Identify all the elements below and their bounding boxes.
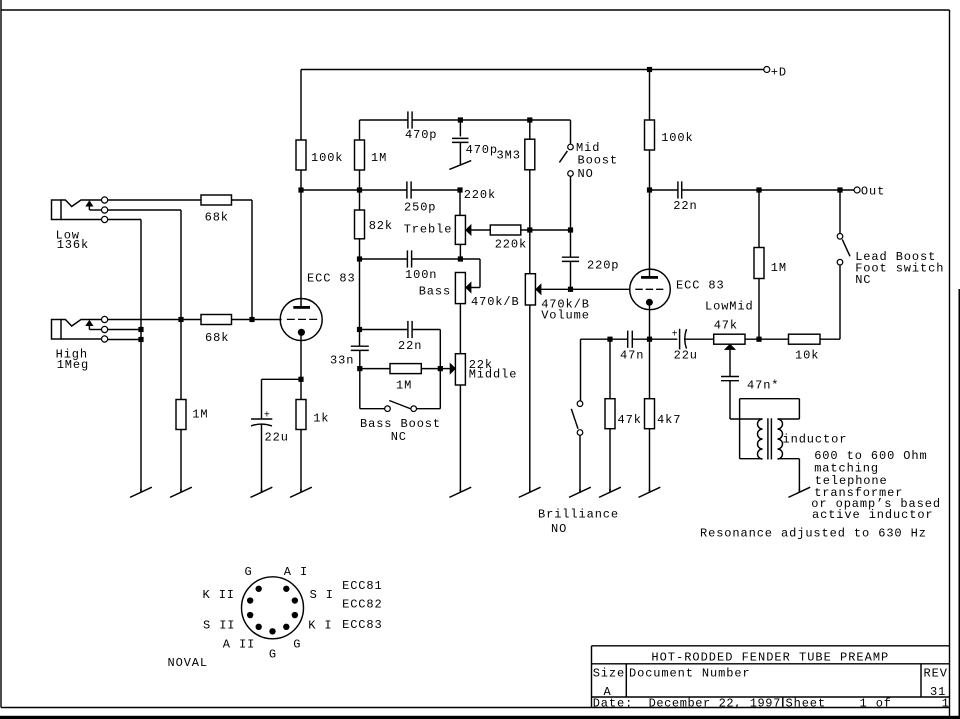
svg-text:1k: 1k [313, 412, 329, 426]
svg-text:100k: 100k [311, 151, 343, 165]
svg-text:K II: K II [203, 588, 235, 602]
svg-text:470p: 470p [405, 128, 437, 142]
svg-text:Volume: Volume [541, 309, 590, 323]
svg-text:22u: 22u [674, 348, 698, 362]
svg-text:22n: 22n [398, 339, 422, 353]
svg-text:ECC82: ECC82 [342, 597, 383, 611]
svg-text:100k: 100k [661, 131, 693, 145]
svg-text:Brilliance: Brilliance [538, 508, 619, 522]
svg-text:47n: 47n [620, 349, 644, 363]
svg-text:December 22, 1997: December 22, 1997 [649, 696, 781, 710]
svg-text:22n: 22n [673, 199, 697, 213]
svg-text:Sheet: Sheet [786, 696, 827, 710]
svg-text:1M: 1M [371, 151, 387, 165]
svg-text:47k: 47k [618, 413, 642, 427]
svg-text:NC: NC [855, 273, 871, 287]
svg-text:250p: 250p [404, 201, 436, 215]
svg-text:+: + [672, 330, 678, 341]
svg-text:47n*: 47n* [747, 379, 779, 393]
svg-text:Bass Boost: Bass Boost [360, 417, 441, 431]
svg-text:A I: A I [284, 565, 308, 579]
svg-text:22u: 22u [265, 431, 289, 445]
svg-text:Size: Size [593, 667, 625, 681]
svg-text:68k: 68k [205, 210, 229, 224]
svg-text:ECC81: ECC81 [342, 579, 383, 593]
svg-text:136k: 136k [57, 238, 89, 252]
svg-text:inductor: inductor [783, 433, 848, 447]
svg-text:Boost: Boost [578, 154, 619, 168]
svg-text:220p: 220p [587, 259, 619, 273]
svg-text:S I: S I [310, 588, 334, 602]
svg-text:NO: NO [578, 167, 594, 181]
svg-text:G: G [293, 637, 301, 651]
svg-text:G: G [269, 648, 277, 662]
svg-text:33n: 33n [330, 354, 354, 368]
svg-text:Document Number: Document Number [629, 667, 751, 681]
svg-text:ECC83: ECC83 [342, 618, 383, 632]
svg-text:4k7: 4k7 [657, 413, 681, 427]
svg-text:Out: Out [861, 185, 885, 199]
svg-text:470k/B: 470k/B [471, 295, 520, 309]
svg-text:1M: 1M [192, 408, 208, 422]
svg-text:470p: 470p [466, 143, 498, 157]
svg-text:+: + [264, 410, 270, 421]
svg-text:1M: 1M [396, 379, 412, 393]
svg-text:1Meg: 1Meg [57, 358, 89, 372]
svg-text:68k: 68k [205, 331, 229, 345]
svg-text:220k: 220k [495, 238, 527, 252]
svg-text:ECC 83: ECC 83 [307, 272, 356, 286]
svg-text:ECC 83: ECC 83 [676, 279, 725, 293]
svg-text:1M: 1M [771, 261, 787, 275]
svg-text:Resonance adjusted to 630 Hz: Resonance adjusted to 630 Hz [700, 527, 927, 541]
svg-text:1 of: 1 of [860, 696, 892, 710]
svg-text:active inductor: active inductor [812, 508, 934, 522]
svg-text:82k: 82k [369, 219, 393, 233]
svg-text:1: 1 [942, 696, 950, 710]
svg-text:S II: S II [203, 618, 235, 632]
svg-text:220k: 220k [464, 188, 496, 202]
svg-text:Treble: Treble [404, 223, 453, 237]
svg-text:LowMid: LowMid [705, 300, 754, 314]
svg-text:3M3: 3M3 [497, 149, 521, 163]
svg-text:10k: 10k [795, 349, 819, 363]
svg-text:Middle: Middle [469, 368, 518, 382]
svg-text:REV: REV [924, 667, 948, 681]
svg-text:+D: +D [771, 65, 787, 79]
svg-text:47k: 47k [714, 319, 738, 333]
svg-text:100n: 100n [405, 268, 437, 282]
svg-text:Date:: Date: [593, 696, 634, 710]
svg-text:NO: NO [551, 522, 567, 536]
svg-text:NOVAL: NOVAL [168, 656, 209, 670]
svg-text:A II: A II [223, 637, 255, 651]
svg-text:HOT-RODDED FENDER TUBE PREAMP: HOT-RODDED FENDER TUBE PREAMP [651, 650, 889, 664]
svg-text:NC: NC [391, 430, 407, 444]
svg-text:K I: K I [308, 618, 332, 632]
svg-text:Bass: Bass [419, 285, 451, 299]
svg-text:G: G [245, 565, 253, 579]
